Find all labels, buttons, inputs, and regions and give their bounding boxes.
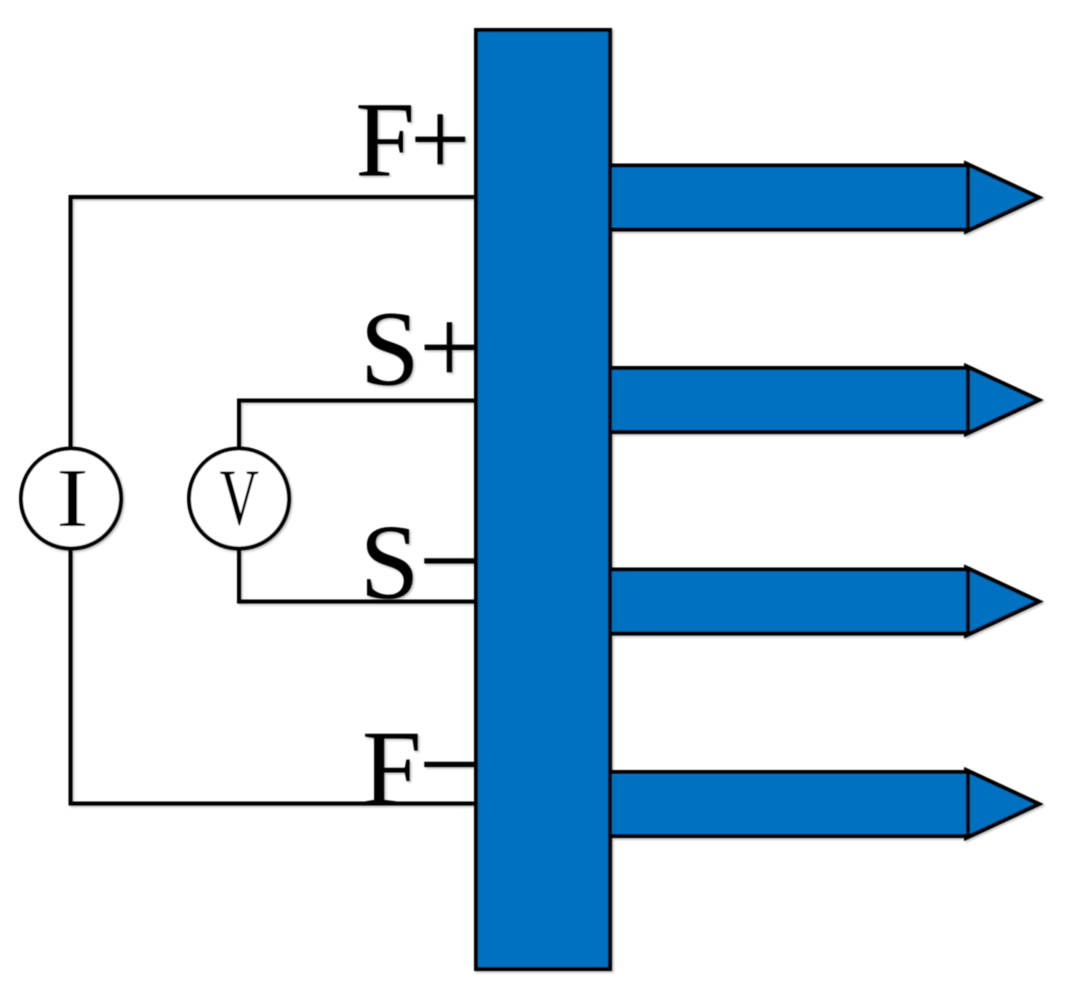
svg-text:−: −	[419, 503, 479, 621]
voltmeter V letter	[220, 453, 259, 542]
wire V loop vertical	[237, 399, 241, 604]
ammeter I circle	[21, 449, 121, 549]
pin 3 tip	[966, 568, 1039, 636]
svg-text:+: +	[410, 81, 470, 199]
wire S+ horizontal	[237, 399, 478, 403]
wire S- horizontal	[237, 600, 478, 604]
svg-text:F: F	[362, 710, 422, 828]
svg-text:V: V	[220, 453, 259, 542]
svg-text:I: I	[56, 451, 88, 545]
pin 3 body	[608, 570, 968, 634]
svg-text:−: −	[419, 706, 479, 824]
voltmeter V circle	[189, 449, 289, 549]
svg-text:F: F	[355, 82, 415, 200]
wire F- horizontal	[69, 802, 479, 806]
svg-text:+: +	[419, 289, 479, 407]
wire F+ horizontal	[69, 195, 479, 199]
pin 4 tip	[966, 770, 1039, 838]
probe bar	[476, 30, 610, 969]
svg-text:S: S	[360, 291, 420, 409]
pin 2 body	[608, 368, 968, 432]
pin 2 tip	[966, 366, 1039, 434]
pin 1 body	[608, 166, 968, 230]
pin 1 tip	[966, 164, 1039, 232]
ammeter I letter	[56, 451, 88, 545]
svg-text:S: S	[360, 504, 420, 622]
pin 4 body	[608, 772, 968, 836]
wire left loop vertical	[69, 195, 73, 806]
